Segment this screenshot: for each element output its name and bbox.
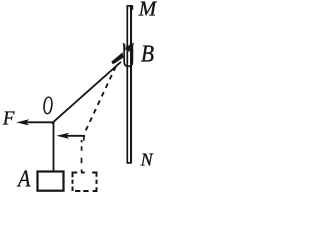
svg-text:F: F bbox=[2, 108, 16, 130]
svg-text:M: M bbox=[138, 0, 157, 21]
svg-text:N: N bbox=[140, 150, 154, 170]
svg-text:B: B bbox=[141, 40, 154, 66]
svg-text:A: A bbox=[16, 165, 31, 192]
svg-text:O: O bbox=[43, 90, 53, 120]
